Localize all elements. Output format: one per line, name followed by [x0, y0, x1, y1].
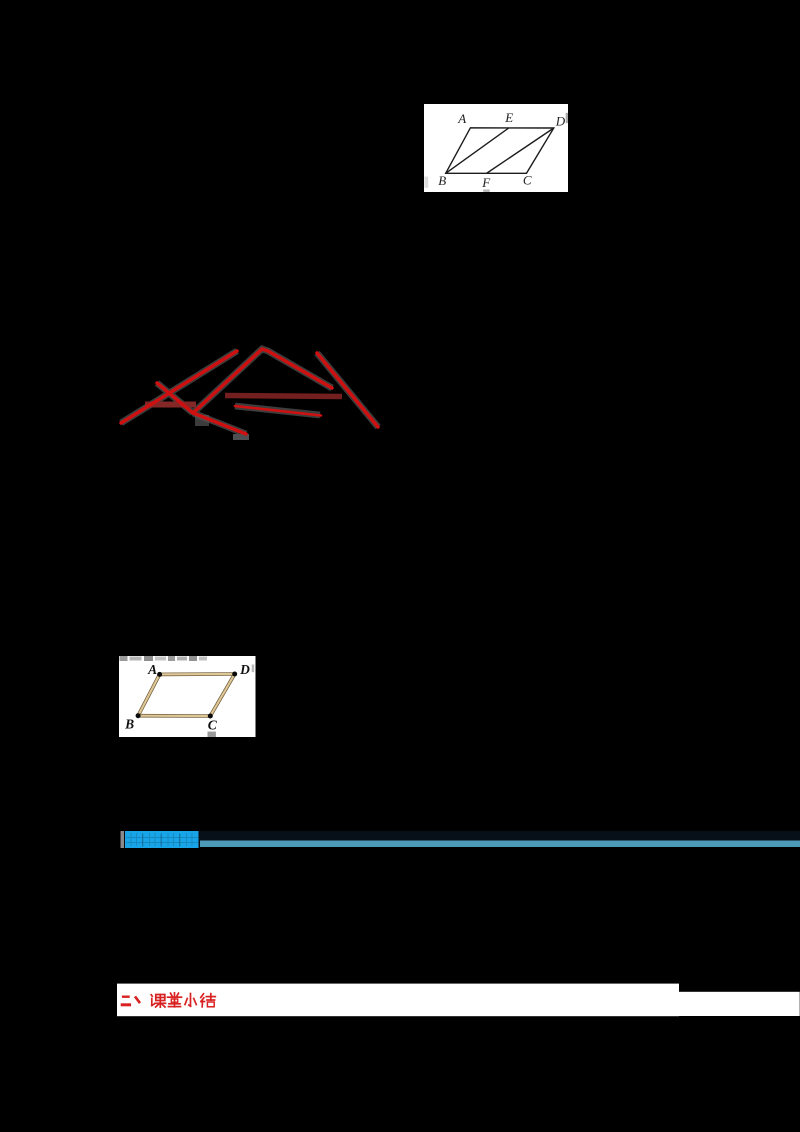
- white figure background: [424, 104, 568, 192]
- stick BC: [138, 714, 210, 718]
- char 二: [122, 996, 130, 998]
- segment BE: [446, 127, 509, 172]
- parallelogram ABCD: [446, 127, 554, 172]
- gray block at stroke S4 end: [233, 434, 249, 440]
- svg-text:C: C: [523, 172, 532, 187]
- stick AB: [138, 674, 159, 715]
- vertex dot A: [157, 672, 162, 677]
- svg-text:D: D: [554, 113, 565, 128]
- segment FD: [486, 128, 553, 173]
- char 小: [190, 994, 192, 1007]
- dark red band D2: [225, 396, 342, 397]
- svg-text:A: A: [147, 662, 157, 677]
- heading band: 二、课堂小结: [115, 980, 800, 1020]
- stick AD: [160, 672, 235, 676]
- stroke S4: [193, 413, 246, 434]
- stroke S5 right diagonal: [317, 353, 378, 427]
- gray block right of D: [252, 664, 254, 672]
- gray patch near scribble vertex: [195, 415, 209, 426]
- gray artifact right of D: [565, 112, 567, 122]
- char 堂: [171, 993, 173, 996]
- svg-text:B: B: [438, 172, 446, 187]
- stroke S1 long rising: [121, 351, 237, 423]
- gray text remnants top: [120, 656, 207, 661]
- cyan badge text block: [125, 831, 199, 848]
- vertex dot B: [136, 713, 141, 718]
- svg-text:F: F: [481, 174, 491, 189]
- white band right extension: [679, 992, 800, 1016]
- gray artifact left of B: [424, 176, 428, 187]
- char 、: [136, 998, 139, 1003]
- svg-text:B: B: [124, 716, 134, 731]
- char 课: [151, 995, 152, 996]
- svg-text:D: D: [240, 662, 251, 677]
- svg-text:E: E: [504, 110, 513, 125]
- dark navy strip: [200, 831, 800, 841]
- char 结: [201, 994, 204, 998]
- figure 1: parallelogram ABCD with E on AD, F on BC: [424, 104, 568, 192]
- steel blue rule: [200, 841, 800, 848]
- stick DC: [211, 674, 235, 716]
- stroke H1 horizontal: [235, 406, 321, 416]
- red pen scribbles: [95, 325, 395, 445]
- dark red band D1: [145, 402, 196, 408]
- vertex dot D: [233, 671, 238, 676]
- section badge row with rule: [118, 828, 800, 850]
- figure 2: matchstick parallelogram ABCD: [119, 656, 256, 737]
- gray bar left of badge: [121, 831, 125, 848]
- cyan badge block: [124, 831, 200, 848]
- gray halos: [121, 349, 378, 434]
- white band main: [117, 984, 679, 1017]
- stroke S2: [157, 383, 193, 413]
- gray artifact below F: [483, 189, 489, 192]
- gray blob below C: [208, 731, 216, 737]
- vertex dot C: [208, 713, 213, 718]
- white figure background: [119, 656, 255, 737]
- red strokes: [121, 349, 378, 434]
- svg-text:C: C: [208, 717, 218, 732]
- stroke S3 check: [193, 349, 332, 413]
- svg-text:A: A: [457, 111, 466, 126]
